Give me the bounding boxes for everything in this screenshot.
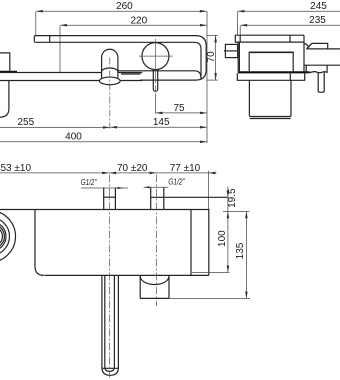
hidden edge segment	[121, 73, 141, 75]
svg-text:245: 245	[310, 1, 327, 12]
collar bottom with break line (side view)	[306, 65, 327, 73]
svg-text:255: 255	[17, 117, 34, 128]
dim 70 +-20	[109, 163, 156, 174]
spout collar arc	[102, 68, 118, 72]
spout bar top edge	[0, 72, 102, 74]
supply pipe elbow below bar	[0, 81, 9, 117]
svg-text:70: 70	[206, 51, 217, 63]
dim 53 +-10	[0, 163, 109, 174]
flange (side view)	[237, 73, 304, 80]
dim 19.5	[227, 187, 238, 273]
shared right extension line	[206, 11, 208, 143]
wall plate inner bottom line	[118, 71, 201, 78]
threaded connector rings (cut at left edge)	[0, 211, 16, 263]
G1/2 label left	[81, 177, 128, 189]
lever arm band (side view, cut at right edge)	[304, 49, 340, 65]
shoulder extension line	[151, 196, 229, 198]
spout centerline	[109, 58, 111, 129]
thick mounting band (side view)	[238, 71, 310, 73]
G1/2 label right	[144, 177, 186, 189]
svg-text:70 ±20: 70 ±20	[117, 163, 148, 174]
svg-text:75: 75	[173, 103, 185, 114]
wall plate outer outline (front view)	[34, 36, 206, 81]
dim 75	[156, 103, 208, 114]
lever stem	[153, 70, 157, 91]
dim 260	[36, 1, 207, 35]
dim 245 (side view)	[237, 1, 340, 35]
body (bottom view)	[0, 210, 209, 276]
mixer body (side view)	[238, 35, 304, 71]
spout cylinder capsule	[102, 49, 118, 78]
handle base weld	[0, 71, 17, 73]
svg-text:135: 135	[235, 242, 246, 259]
dim 145	[110, 117, 207, 129]
svg-text:400: 400	[65, 132, 82, 143]
svg-text:235: 235	[309, 15, 326, 26]
dim 135	[169, 211, 250, 298]
drop pipe below left port	[102, 275, 119, 375]
right supply port	[151, 188, 164, 210]
wall plate inner outline	[34, 42, 201, 78]
knob crosshair	[139, 55, 173, 57]
dim 77 +-10	[157, 163, 217, 209]
dim 220	[60, 15, 207, 72]
svg-text:260: 260	[116, 1, 133, 12]
control knob circle	[142, 43, 169, 70]
lever centerline	[154, 73, 156, 95]
handle (front view, cut at left edge)	[0, 53, 10, 72]
svg-text:220: 220	[130, 15, 147, 26]
svg-text:100: 100	[217, 230, 228, 247]
lever stem (side view)	[318, 73, 324, 93]
svg-text:53 ±10: 53 ±10	[1, 163, 32, 174]
svg-text:19.5: 19.5	[227, 188, 238, 208]
dim 235 (side view)	[240, 15, 340, 35]
dim 400	[0, 132, 207, 144]
handle collar top (side view)	[304, 43, 328, 49]
wall plate (side view)	[235, 35, 304, 42]
plate seam tick	[49, 36, 51, 42]
left supply port	[104, 188, 116, 210]
dim 70 (front view height)	[206, 35, 218, 80]
cup / spout holder (side view)	[249, 80, 291, 118]
spout bottom ellipse	[99, 77, 120, 85]
extension line B	[223, 210, 250, 212]
port centerline right	[156, 175, 158, 307]
body recess (side view)	[249, 52, 293, 71]
wall connection knob (side view)	[224, 44, 238, 57]
extension line bottom of body	[192, 271, 230, 273]
dim 100	[217, 230, 229, 273]
dim 255	[0, 117, 110, 129]
svg-text:145: 145	[153, 117, 170, 128]
svg-text:77 ±10: 77 ±10	[170, 163, 201, 174]
port centerline left	[109, 175, 111, 378]
lower cup below right port	[140, 275, 169, 298]
spout bar bottom edge	[0, 80, 100, 82]
svg-text:G1/2”: G1/2”	[168, 177, 185, 187]
svg-text:G1/2”: G1/2”	[81, 177, 98, 187]
